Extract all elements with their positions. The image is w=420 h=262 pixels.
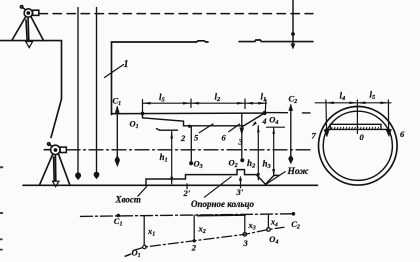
band top line [330,124,381,129]
theodolite T2 tripod [40,154,70,185]
dimension line l5 l2 l1 [143,102,267,104]
bottom stepped profile (support ring / tail) [146,170,279,186]
tick at l5 left [142,100,144,114]
solid segment on graph axis [198,214,246,217]
ground line main [23,184,318,186]
svg-text:Хвост: Хвост [115,195,141,205]
plumb wire dot [291,32,295,36]
node O2 dot [240,158,244,162]
plumb wire A [77,8,79,174]
node O4 dot [263,111,267,115]
plumb bob B [94,172,99,179]
dash toward section circle [303,112,311,114]
chord line 7-6 [326,128,390,130]
kiln axis dash-dot line [66,149,313,151]
node 2 dot [193,239,196,242]
tick 2' [186,184,188,189]
dimension h3 [273,127,275,176]
ordinate x1 [143,216,145,247]
ordinate x2 [193,215,195,240]
ring top line C [157,129,178,131]
svg-text:2: 2 [191,242,197,252]
theodolite T1 plumb arrow [26,42,33,48]
node C1 dot [117,214,121,218]
leader Опорное кольцо [205,177,232,197]
dimension line l4 l5 [315,102,391,104]
kiln shell top line A [112,112,265,115]
tick l5/l2 [190,99,192,108]
arrow 3' [240,179,242,188]
node O1 dot [143,245,147,249]
band dotted inner edge [332,127,379,129]
graph axis line (bottom schematic) [81,214,294,217]
node O3 dot [189,161,193,165]
svg-text:4: 4 [262,117,267,126]
svg-text:Опорное кольцо: Опорное кольцо [191,199,254,209]
theodolite T1 body [20,6,38,18]
plumb bob A [75,173,80,180]
tick centre (down to 0) [356,100,358,134]
section ring outer circle [319,107,398,186]
enclosure outline 1 [112,41,209,115]
ring step line B [143,114,244,126]
ordinate x3 [244,215,246,233]
leader Нож [266,172,285,185]
ground line left (under T1) [0,41,62,138]
station C1 plumb line [116,107,118,159]
leader arrow for 4 [252,122,256,126]
station C2 plumb line [290,105,292,157]
svg-text:3': 3' [236,187,244,197]
plumb at point 3/6 [241,113,243,158]
leader Хвост [138,187,147,197]
tick l2/l1 [244,99,246,109]
leader 6 [228,124,240,132]
leader for label 1 [105,65,124,78]
svg-text:2': 2' [183,188,191,198]
leader 5 [199,124,214,133]
dim arrows [143,102,267,105]
theodolite T2 body [44,143,66,155]
edge artifact marks [0,167,2,249]
dim arrows l4 l5 [326,102,389,105]
node 3 dot [243,233,247,237]
ordinate x4 [267,214,269,228]
dashed sight line from T1 [39,13,313,15]
tick at l1 right [264,100,267,112]
plumb wire arrowhead [291,44,295,49]
theodolite T2 plumb arrow [53,181,59,186]
svg-text:Нож: Нож [287,167,309,177]
section ring inner circle [323,111,392,180]
stray dash left of O1 [125,254,130,256]
svg-text:1: 1 [124,59,129,70]
theodolite T1 tripod [12,17,44,41]
plumb O3 [190,126,192,161]
svg-text:3: 3 [243,238,249,248]
enclosure top line right part [239,40,313,42]
node O4' dot [267,228,271,232]
inclined axis line [133,227,284,250]
cone diagonal to O4 [242,113,264,126]
line A right extension [265,112,288,114]
svg-text:3: 3 [238,137,244,147]
svg-text:2: 2 [180,133,186,143]
dimension h1 [171,132,173,184]
plumb wire above C2 [292,0,294,44]
plumb wire B [96,8,98,173]
node dot near 2 [188,125,191,128]
node C2 end dot [292,212,296,216]
dimension h2 [257,126,259,180]
node O1 dot [141,112,145,116]
arrowhead on plumb 3 [240,128,244,135]
tick right (down to ring, arrow 6 side) [387,100,389,131]
tick left (down to ring, arrow 7 side) [325,100,328,131]
